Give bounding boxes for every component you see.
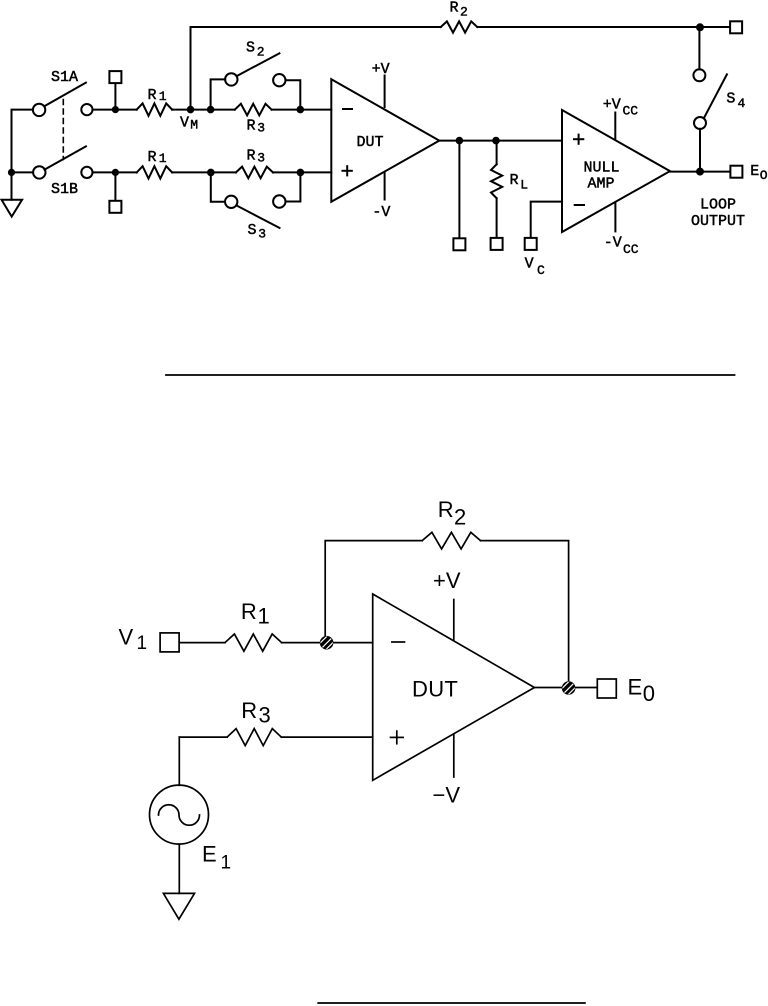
- svg-text:V: V: [119, 625, 134, 650]
- resistor R1: [225, 634, 282, 651]
- wire E1 bottom: [178, 844, 180, 893]
- wire S4 upper: [698, 27, 700, 69]
- label R1: [241, 599, 270, 629]
- svg-text:1: 1: [159, 151, 167, 166]
- wire feedback right: [481, 541, 569, 681]
- node junction: [696, 23, 704, 31]
- wire: [172, 171, 236, 173]
- wire: [180, 642, 225, 644]
- svg-text:DUT: DUT: [357, 134, 384, 151]
- square terminal V1: [160, 633, 179, 652]
- node (hatched) inverting input: [319, 635, 334, 650]
- svg-text:3: 3: [259, 703, 271, 728]
- svg-text:3: 3: [257, 120, 265, 135]
- wire S2 left leg: [211, 79, 226, 109]
- node junction: [492, 137, 500, 145]
- wire S3 right leg: [286, 172, 301, 201]
- svg-text:LOOP: LOOP: [700, 196, 736, 213]
- wire: [93, 109, 137, 111]
- node VM: [187, 106, 195, 114]
- resistor R3: [227, 729, 281, 746]
- svg-text:S1B: S1B: [51, 181, 78, 198]
- label R1 lower: [148, 149, 167, 166]
- supply +V: [433, 568, 461, 640]
- square terminal: [109, 172, 121, 212]
- label S3: [248, 222, 267, 242]
- svg-text:1: 1: [221, 853, 232, 874]
- square terminal E0: [597, 679, 616, 698]
- svg-text:4: 4: [738, 96, 746, 111]
- ground (bottom): [163, 893, 194, 919]
- label E0: [628, 674, 656, 706]
- wire S4 lower: [699, 129, 701, 172]
- supply +V: [372, 61, 390, 107]
- label V1: [119, 625, 148, 655]
- resistor R1 (upper): [137, 103, 172, 115]
- supply -VCC: [604, 203, 639, 258]
- label VM: [180, 115, 198, 133]
- gang dashed link: [62, 100, 64, 160]
- label NULL AMP: [584, 160, 620, 193]
- svg-text:R: R: [450, 0, 459, 17]
- svg-text:C: C: [537, 263, 545, 278]
- wire: [12, 171, 34, 173]
- node junction: [696, 168, 704, 176]
- wire VM to top feedback: [190, 27, 192, 110]
- resistor R2: [441, 21, 478, 32]
- supply -V: [433, 735, 461, 808]
- svg-text:2: 2: [460, 5, 468, 20]
- supply +VCC: [603, 96, 639, 138]
- label VC: [525, 256, 545, 278]
- svg-text:CC: CC: [623, 104, 639, 119]
- wire VC: [531, 202, 562, 238]
- ground: [2, 200, 23, 217]
- label R1: [148, 87, 167, 104]
- node junction: [297, 106, 305, 114]
- pin minus: [343, 108, 352, 110]
- wire: [281, 736, 372, 738]
- svg-text:−V: −V: [433, 783, 461, 808]
- svg-text:R: R: [510, 172, 519, 189]
- wire R3 to + input: [179, 736, 227, 738]
- switch S4: [693, 69, 727, 129]
- node junction: [207, 106, 215, 114]
- svg-text:M: M: [190, 118, 198, 133]
- op-amp DUT (bottom): [373, 594, 535, 780]
- svg-text:R: R: [148, 87, 157, 104]
- wire S3 left leg: [211, 172, 225, 201]
- node (hatched) output: [561, 680, 576, 695]
- pin plus: [574, 135, 583, 144]
- wire to ground square: [458, 141, 460, 238]
- node junction: [456, 137, 464, 145]
- wire DUT output: [534, 687, 595, 689]
- svg-text:E: E: [628, 674, 643, 699]
- svg-text:S: S: [246, 40, 255, 57]
- svg-text:3: 3: [257, 151, 265, 166]
- supply -V: [372, 173, 390, 221]
- svg-text:V: V: [180, 115, 189, 132]
- square terminal: [453, 238, 465, 250]
- wire DUT output: [439, 140, 562, 142]
- pin minus: [392, 641, 405, 643]
- switch S3: [225, 195, 285, 228]
- svg-text:S: S: [248, 222, 257, 239]
- op-amp NULL AMP U2: [562, 110, 670, 232]
- svg-text:1: 1: [137, 633, 148, 654]
- svg-text:2: 2: [454, 505, 466, 530]
- svg-text:E: E: [202, 842, 217, 867]
- svg-text:-V: -V: [604, 235, 622, 252]
- svg-text:R: R: [247, 117, 256, 134]
- source E1: [150, 785, 209, 844]
- svg-text:+V: +V: [372, 61, 390, 78]
- label R3: [241, 698, 271, 728]
- resistor R3 (upper): [235, 104, 272, 116]
- svg-text:R: R: [148, 149, 157, 166]
- label LOOP OUTPUT: [691, 196, 745, 230]
- wire: [12, 110, 33, 200]
- wire feedback left: [325, 541, 422, 636]
- svg-text:R: R: [247, 148, 256, 165]
- square terminal: [491, 238, 503, 250]
- wire S2 right leg: [286, 80, 301, 109]
- resistor R3 (lower): [236, 167, 273, 179]
- switch S1A: [33, 83, 86, 117]
- svg-text:DUT: DUT: [412, 677, 458, 702]
- separator line: [166, 374, 735, 376]
- svg-text:R: R: [241, 599, 257, 624]
- wire: [93, 171, 137, 173]
- node junction: [112, 169, 119, 176]
- label S2: [246, 40, 265, 60]
- square terminal VC: [525, 238, 537, 250]
- resistor R1 (lower): [137, 166, 172, 178]
- label E1: [202, 842, 231, 874]
- wire E1 top: [178, 737, 180, 785]
- pin plus: [391, 731, 404, 744]
- svg-text:CC: CC: [623, 242, 639, 257]
- label R3 lower: [247, 148, 266, 166]
- svg-text:S1A: S1A: [51, 69, 78, 86]
- pin plus: [343, 166, 352, 175]
- label E0: [750, 163, 767, 183]
- op-amp DUT: [331, 79, 439, 202]
- square terminal E0: [730, 166, 742, 178]
- switch S2: [225, 53, 285, 86]
- svg-text:2: 2: [257, 45, 265, 60]
- pin minus: [575, 204, 584, 206]
- svg-text:R: R: [241, 698, 257, 723]
- node junction: [297, 169, 305, 177]
- svg-text:R: R: [438, 497, 454, 522]
- svg-text:AMP: AMP: [588, 176, 615, 193]
- svg-text:+V: +V: [603, 96, 621, 113]
- terminal circle lower input: [81, 167, 92, 178]
- square terminal top right: [730, 21, 742, 33]
- svg-text:E: E: [750, 163, 759, 180]
- svg-text:1: 1: [159, 89, 167, 104]
- wire top feedback left: [191, 26, 441, 28]
- switch S1B: [33, 146, 86, 178]
- wire: [282, 642, 373, 644]
- svg-text:-V: -V: [372, 204, 390, 221]
- resistor R2: [422, 532, 480, 549]
- svg-text:NULL: NULL: [584, 160, 620, 177]
- svg-text:V: V: [525, 256, 534, 273]
- terminal circle upper input: [81, 104, 92, 115]
- label R2: [450, 0, 468, 20]
- svg-text:+V: +V: [433, 568, 461, 593]
- label R3: [247, 117, 266, 135]
- svg-text:0: 0: [643, 681, 655, 706]
- label S4: [726, 91, 745, 111]
- node junction: [207, 169, 215, 177]
- svg-text:S: S: [726, 91, 735, 108]
- node junction: [8, 169, 15, 176]
- svg-text:OUTPUT: OUTPUT: [691, 213, 745, 230]
- label R2: [438, 497, 467, 530]
- wire: [172, 109, 235, 111]
- node junction: [112, 106, 119, 113]
- svg-text:O: O: [760, 168, 768, 183]
- resistor RL: [491, 141, 502, 238]
- svg-text:L: L: [520, 178, 528, 193]
- svg-text:3: 3: [258, 226, 266, 241]
- svg-text:1: 1: [258, 604, 270, 629]
- separator line bottom: [318, 1002, 585, 1004]
- wire NULL output: [670, 171, 729, 173]
- wire top feedback right: [477, 26, 729, 28]
- square terminal: [109, 71, 121, 110]
- label RL: [510, 172, 529, 193]
